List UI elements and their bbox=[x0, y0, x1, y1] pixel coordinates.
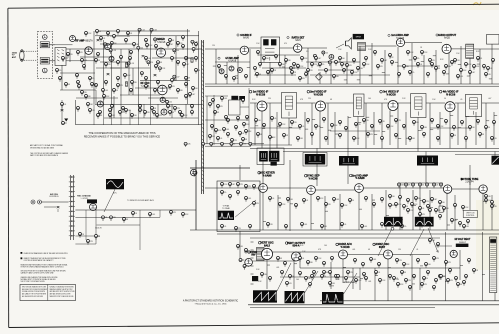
component agc row c17 bbox=[459, 222, 462, 227]
svg-text:330: 330 bbox=[180, 90, 183, 92]
svg-text:120: 120 bbox=[438, 210, 441, 212]
component on bus c2 bbox=[202, 142, 205, 147]
svg-text:.001: .001 bbox=[336, 199, 339, 201]
svg-text:470: 470 bbox=[349, 65, 352, 67]
svg-text:68: 68 bbox=[280, 258, 282, 260]
component bottom row c26 bbox=[413, 275, 416, 280]
component bottom row c30 bbox=[309, 283, 312, 288]
component tuner p3 c11 bbox=[83, 65, 86, 70]
component left-mid c5 bbox=[193, 171, 196, 176]
video IF row wiring bbox=[250, 103, 499, 154]
component tuner c35 bbox=[151, 107, 157, 112]
label RF OSC bbox=[140, 82, 150, 88]
svg-text:VARY POINT AND WITH RESISTANCE: VARY POINT AND WITH RESISTANCE bbox=[30, 154, 59, 157]
svg-text:220: 220 bbox=[70, 54, 73, 56]
component tuner extra c21 bbox=[97, 114, 103, 119]
svg-text:68: 68 bbox=[286, 135, 288, 137]
component tuner p3 c15 bbox=[129, 57, 132, 62]
component yoke plug b bbox=[243, 265, 249, 270]
svg-text:.05: .05 bbox=[460, 99, 462, 101]
svg-text:RATIO DET: RATIO DET bbox=[292, 36, 305, 39]
svg-text:68: 68 bbox=[438, 68, 440, 70]
svg-text:220: 220 bbox=[308, 98, 311, 100]
svg-text:.047: .047 bbox=[186, 64, 189, 66]
component agc row c19 bbox=[221, 191, 227, 196]
phono jack 1 bbox=[31, 200, 35, 204]
component sound row c26 bbox=[285, 59, 291, 64]
small print notes a bbox=[30, 144, 63, 149]
component video IF c41 bbox=[395, 134, 398, 139]
svg-text:120: 120 bbox=[488, 74, 491, 76]
svg-text:.047: .047 bbox=[488, 98, 491, 100]
component extra p2 c35 bbox=[427, 205, 430, 210]
component tuner c30 bbox=[81, 91, 87, 96]
component video IF c22 bbox=[431, 119, 434, 124]
component extra p2 c28 bbox=[239, 132, 245, 137]
component video IF c26 bbox=[461, 121, 464, 126]
svg-text:5 A 6.3V: 5 A 6.3V bbox=[95, 227, 102, 230]
component agc row c36 bbox=[381, 198, 384, 203]
component agc row c10 bbox=[415, 197, 421, 202]
component extra p2 c21 bbox=[209, 103, 212, 108]
component tuner c32 bbox=[109, 109, 112, 114]
component tuner c18 bbox=[110, 42, 116, 47]
component extra p2 c2 bbox=[263, 57, 269, 62]
component center cluster c11 bbox=[217, 137, 223, 142]
component extra p2 c17 bbox=[451, 61, 454, 66]
component sound row c14 bbox=[429, 59, 435, 64]
component extra p2 c9 bbox=[357, 67, 364, 72]
label label SYNC INV bbox=[248, 250, 257, 257]
component left-mid c8 bbox=[95, 235, 100, 240]
component video IF c37 bbox=[339, 134, 342, 139]
component agc row c51 bbox=[341, 223, 347, 228]
component extra p2 c19 bbox=[473, 65, 481, 70]
component center cluster c5 bbox=[225, 116, 228, 121]
svg-text:68: 68 bbox=[330, 99, 332, 101]
component video IF c21 bbox=[421, 126, 428, 131]
tube V35 vert output bbox=[292, 252, 301, 261]
svg-text:.047: .047 bbox=[176, 77, 179, 79]
component sound row c23 bbox=[245, 75, 248, 80]
component tuner c26 bbox=[124, 74, 132, 79]
component tuner p3 c38 bbox=[179, 111, 182, 116]
svg-text:68: 68 bbox=[482, 134, 484, 136]
paper tint top right bbox=[460, 0, 499, 10]
component tuner extra c28 bbox=[181, 114, 189, 119]
component agc row c24 bbox=[269, 197, 275, 202]
svg-text:.05: .05 bbox=[490, 68, 492, 70]
svg-text:.05: .05 bbox=[274, 118, 276, 120]
ground symbol below shield bbox=[64, 119, 68, 122]
component center cluster c2 bbox=[221, 97, 228, 102]
component tuner extra c22 bbox=[109, 114, 116, 119]
page border bottom bbox=[9, 323, 499, 328]
svg-text:6S4-A: 6S4-A bbox=[292, 245, 299, 248]
component extra p2 c10 bbox=[363, 63, 371, 68]
svg-text:6BQ7A: 6BQ7A bbox=[85, 40, 93, 43]
component video IF c31 bbox=[257, 133, 262, 138]
component center cluster c1 bbox=[212, 99, 215, 104]
svg-text:330: 330 bbox=[418, 198, 421, 200]
component agc row c8 bbox=[399, 196, 402, 201]
component video IF c38 bbox=[353, 137, 361, 142]
capacitor tuner C1 bbox=[97, 40, 100, 42]
component tuner extra c19 bbox=[177, 89, 183, 94]
component bottom row c17 bbox=[299, 272, 302, 277]
component tuner p3 c21 bbox=[77, 81, 80, 86]
component bottom row c42 bbox=[468, 259, 471, 264]
tuner below-shield components bbox=[61, 100, 63, 125]
component tuner c11 bbox=[140, 72, 143, 77]
svg-text:470: 470 bbox=[80, 52, 83, 54]
component tuner p3 c6 bbox=[155, 45, 158, 50]
component bottom row c16 bbox=[433, 257, 440, 262]
component video IF c19 bbox=[403, 125, 406, 130]
svg-text:120: 120 bbox=[113, 217, 116, 219]
component tuner extra c4 bbox=[117, 30, 120, 35]
component agc row c16 bbox=[451, 219, 457, 224]
component agc row c40 bbox=[429, 209, 432, 214]
svg-text:100: 100 bbox=[134, 115, 137, 117]
waveform W6 leader bbox=[378, 229, 392, 257]
rec change label box bbox=[87, 199, 97, 203]
component tuner p3 c30 bbox=[77, 107, 80, 112]
component agc row c27 bbox=[295, 204, 298, 209]
wire y168 left of sync box bbox=[190, 167, 250, 169]
svg-text:120: 120 bbox=[270, 224, 273, 226]
component agc row c41 bbox=[439, 215, 442, 220]
label HV RECT block bbox=[455, 239, 471, 247]
component agc row c6 bbox=[433, 183, 439, 188]
capacitor tuner C2 bbox=[142, 56, 145, 58]
tube V3 bbox=[85, 47, 93, 55]
component extra p2 c6 bbox=[315, 57, 322, 62]
component extra p2 c16 bbox=[445, 65, 452, 70]
tube V30 vert osc bbox=[261, 248, 272, 259]
component center cluster c9 bbox=[235, 126, 238, 131]
component on bus c4 bbox=[221, 142, 224, 147]
tube V29 rec change bbox=[90, 204, 97, 211]
resistor tuner R1 bbox=[125, 63, 127, 68]
svg-text:.001: .001 bbox=[460, 76, 463, 78]
component bottom row c44 bbox=[437, 243, 440, 248]
component bottom row c22 bbox=[363, 273, 366, 278]
svg-text:100: 100 bbox=[472, 127, 475, 129]
svg-text:68: 68 bbox=[160, 62, 162, 64]
antenna lead wire upper bbox=[24, 50, 37, 52]
component extra p2 c23 bbox=[227, 119, 230, 124]
component video IF c27 bbox=[469, 126, 475, 131]
component tuner extra c23 bbox=[119, 111, 126, 116]
svg-text:CONTROL: CONTROL bbox=[466, 215, 475, 217]
svg-text:120: 120 bbox=[108, 64, 111, 66]
component tuner c29 bbox=[130, 51, 133, 56]
component tuner extra c11 bbox=[78, 85, 81, 90]
component tuner p3 c22 bbox=[91, 83, 97, 88]
svg-text:HI VOLT RECT: HI VOLT RECT bbox=[455, 239, 471, 241]
component tuner p3 c8 bbox=[182, 45, 185, 50]
svg-text:.001: .001 bbox=[373, 259, 376, 261]
component tuner c16 bbox=[109, 49, 117, 54]
capacitor below shield bbox=[61, 110, 64, 112]
tube V31 horiz afc bbox=[339, 250, 348, 259]
resistor tuner R2 bbox=[125, 82, 127, 87]
tube V13 4.5mc amp c bbox=[237, 68, 242, 73]
svg-text:THE COOPERATION OF THE MANUFAC: THE COOPERATION OF THE MANUFACTURER OF T… bbox=[88, 131, 155, 135]
tuner shield dashed box bbox=[38, 32, 53, 79]
component extra p2 c20 bbox=[487, 67, 493, 72]
component bottom row c9 bbox=[362, 263, 365, 268]
svg-text:INV: INV bbox=[251, 254, 256, 257]
component extra p2 c30 bbox=[389, 195, 395, 200]
svg-text:56: 56 bbox=[426, 278, 428, 280]
component sound row c28 bbox=[307, 69, 313, 74]
tube V17 audio amp bbox=[396, 38, 404, 46]
component agc row c29 bbox=[317, 197, 325, 202]
waveform W4 leader bbox=[305, 271, 319, 293]
component sound row c11 bbox=[407, 51, 415, 56]
tuner channel strip box upper bbox=[40, 42, 49, 48]
svg-text:.001: .001 bbox=[84, 60, 87, 62]
component on bus c1 bbox=[184, 142, 191, 147]
waveform W3 leader bbox=[277, 263, 291, 291]
component sound mid c3 bbox=[279, 63, 285, 68]
component tuner c12 bbox=[158, 67, 166, 72]
component extra p2 c39 bbox=[491, 201, 494, 206]
component tuner c3 bbox=[154, 38, 161, 43]
B+ bus line upper bbox=[205, 83, 499, 85]
component video IF c3 bbox=[271, 117, 277, 122]
component agc row c52 bbox=[361, 225, 368, 230]
component extra p2 c4 bbox=[293, 63, 300, 68]
component extra p2 c15 bbox=[431, 63, 434, 68]
left-mid wiring bbox=[42, 160, 197, 250]
component tuner c31 bbox=[89, 109, 95, 114]
component agc row c21 bbox=[237, 191, 240, 196]
svg-text:RECEIVER MAKES IT POSSIBLE TO: RECEIVER MAKES IT POSSIBLE TO BRING YOU … bbox=[84, 135, 161, 139]
component tuner extra c25 bbox=[144, 111, 150, 116]
component video IF c39 bbox=[367, 133, 374, 138]
component sound row c16 bbox=[454, 59, 460, 64]
svg-text:.05: .05 bbox=[94, 84, 96, 86]
component sound row c6 bbox=[353, 59, 356, 64]
component tuner c4 bbox=[176, 42, 182, 47]
IF transformer can T2 (photo) bbox=[305, 154, 325, 165]
component tuner p3 c14 bbox=[117, 61, 120, 66]
component video IF c42 bbox=[409, 137, 416, 142]
component extra p2 c14 bbox=[417, 63, 423, 68]
svg-text:68: 68 bbox=[368, 249, 370, 251]
IF can group outline B bbox=[303, 153, 327, 167]
component tuner p3 c25 bbox=[131, 81, 137, 86]
component bottom row c28 bbox=[439, 275, 445, 280]
tube V33 small bottom left bbox=[245, 259, 253, 267]
component tuner p3 c10 bbox=[77, 51, 83, 56]
small network box right of W7 bbox=[439, 206, 443, 212]
component center cluster c8 bbox=[223, 128, 230, 133]
component tuner c22 bbox=[76, 74, 79, 79]
svg-text:VTVM FOR OHMS CHASSIS READINGS: VTVM FOR OHMS CHASSIS READINGS INPUT CON… bbox=[21, 265, 65, 268]
svg-text:100: 100 bbox=[246, 266, 249, 268]
component video IF c32 bbox=[269, 136, 277, 141]
component bottom row c4 bbox=[307, 261, 313, 266]
component video IF c29 bbox=[485, 126, 490, 131]
svg-text:.01: .01 bbox=[302, 258, 304, 260]
tube V4 bbox=[105, 44, 111, 50]
component C below shield bbox=[61, 103, 67, 108]
component extra p2 c52 bbox=[329, 271, 332, 276]
component bottom row c19 bbox=[323, 271, 328, 276]
component agc row c7 bbox=[440, 183, 443, 188]
component tuner c34 bbox=[139, 109, 145, 114]
component agc row c14 bbox=[454, 204, 457, 209]
output transformer T6 bbox=[466, 44, 474, 58]
component agc row c20 bbox=[229, 195, 232, 200]
sound row extra labels bbox=[212, 43, 480, 61]
component agc row c43 bbox=[491, 205, 497, 210]
component video IF c1 bbox=[255, 119, 261, 124]
component extra p2 c63 bbox=[455, 277, 458, 282]
tube V23 small bbox=[191, 169, 197, 175]
component tuner extra c17 bbox=[154, 89, 159, 94]
svg-text:220: 220 bbox=[169, 102, 172, 104]
waveform photo W7 horiz sine bbox=[415, 217, 434, 227]
component sound row c21 bbox=[225, 75, 228, 80]
component video IF c48 bbox=[491, 137, 497, 142]
svg-text:56: 56 bbox=[454, 135, 456, 137]
component bottom row c14 bbox=[417, 259, 420, 264]
component tuner p3 c24 bbox=[117, 77, 120, 82]
IF can T1 connector tail bbox=[271, 162, 277, 166]
svg-text:½ 6CG8: ½ 6CG8 bbox=[446, 92, 456, 96]
svg-text:56: 56 bbox=[324, 276, 326, 278]
component extra p2 c54 bbox=[345, 277, 348, 282]
component sound row c31 bbox=[319, 63, 325, 68]
component video IF c17 bbox=[387, 125, 395, 130]
component tuner p3 c31 bbox=[87, 103, 93, 108]
component tuner extra c2 bbox=[96, 30, 101, 35]
component extra p2 c43 bbox=[245, 185, 252, 190]
svg-text:.001: .001 bbox=[276, 267, 279, 269]
waveform photo W2 sync pulse bbox=[218, 211, 234, 220]
svg-text:330: 330 bbox=[446, 208, 449, 210]
component tuner c42 bbox=[67, 53, 73, 58]
component tuner extra c13 bbox=[103, 95, 111, 100]
component tuner extra c1 bbox=[85, 32, 93, 37]
label RATIO DET 6AL5 bbox=[287, 36, 305, 42]
test point diamond bbox=[316, 73, 323, 80]
svg-text:.047: .047 bbox=[170, 44, 173, 46]
component video IF c23 bbox=[437, 125, 445, 130]
component tuner extra c12 bbox=[85, 95, 91, 100]
IF can group outline A bbox=[257, 148, 284, 165]
component tuner c1 bbox=[138, 28, 146, 33]
component video IF c5 bbox=[291, 121, 297, 126]
speaker bbox=[346, 38, 352, 49]
svg-text:100: 100 bbox=[368, 98, 371, 100]
capacitor tuner C3 bbox=[154, 75, 157, 77]
svg-text:TO REMOTE SOUND AMP JACK: TO REMOTE SOUND AMP JACK bbox=[127, 199, 155, 202]
IF interstage transformer A bbox=[282, 93, 297, 119]
svg-text:220: 220 bbox=[294, 122, 297, 124]
svg-text:220: 220 bbox=[84, 92, 87, 94]
component sound row c36 bbox=[443, 71, 446, 76]
component agc row c44 bbox=[221, 225, 227, 230]
waveform photo W3 vert sawtooth bbox=[253, 290, 277, 302]
antenna lead wire lower bbox=[24, 59, 37, 61]
component extra p2 c33 bbox=[411, 203, 419, 208]
component tuner p3 c26 bbox=[145, 77, 148, 82]
component tuner c20 bbox=[95, 84, 98, 89]
tuner extra wiring bbox=[60, 31, 198, 125]
waveform W1 leader line bbox=[104, 189, 115, 212]
svg-text:68: 68 bbox=[460, 284, 462, 286]
svg-text:68: 68 bbox=[172, 112, 174, 114]
component video IF c20 bbox=[413, 121, 419, 126]
component video IF c35 bbox=[311, 133, 314, 138]
svg-text:SPKR: SPKR bbox=[356, 37, 362, 39]
svg-text:.047: .047 bbox=[308, 278, 311, 280]
component video IF c7 bbox=[307, 119, 310, 124]
component video IF c11 bbox=[339, 121, 342, 126]
svg-text:120: 120 bbox=[358, 124, 361, 126]
service note lines 5 bbox=[21, 276, 58, 283]
component tuner c17 bbox=[104, 43, 110, 48]
label RF AMP 6BQ7A bbox=[71, 39, 93, 42]
component bottom row c29 bbox=[286, 282, 292, 287]
svg-text:120: 120 bbox=[406, 66, 409, 68]
svg-text:.001: .001 bbox=[248, 198, 251, 200]
component D below shield bbox=[62, 122, 67, 125]
svg-text:120: 120 bbox=[457, 60, 460, 62]
svg-text:1B3GT: 1B3GT bbox=[459, 242, 467, 244]
tube V2 RF amplifier bbox=[70, 36, 76, 42]
tube V8 bbox=[97, 101, 103, 107]
component sound row c18 bbox=[477, 57, 483, 62]
tube V1B bbox=[43, 68, 48, 73]
component tuner c2 bbox=[150, 28, 158, 33]
yoke connector black tab bbox=[252, 276, 258, 281]
tube V15 ratio detector bbox=[294, 44, 302, 52]
component tuner p3 c34 bbox=[125, 109, 132, 114]
wire x207 vertical bbox=[206, 96, 208, 144]
component tuner extra c18 bbox=[169, 85, 175, 90]
component sound row c35 bbox=[427, 73, 430, 78]
svg-text:.01: .01 bbox=[416, 249, 418, 251]
yellow scribble artifact top right bbox=[473, 2, 481, 5]
label label HORIZ OSC bbox=[373, 242, 389, 249]
component agc row c49 bbox=[301, 223, 308, 228]
svg-text:120: 120 bbox=[382, 121, 385, 123]
component tuner extra c6 bbox=[146, 44, 154, 49]
tube V22 4th video if bbox=[445, 102, 455, 112]
component tuner extra c16 bbox=[145, 85, 148, 90]
component video IF c44 bbox=[437, 137, 440, 142]
component extra p2 c36 bbox=[435, 209, 441, 214]
component tuner p3 c18 bbox=[171, 57, 174, 62]
waveform photo W1 60cps sine bbox=[106, 179, 124, 189]
svg-text:.047: .047 bbox=[136, 44, 139, 46]
component agc row c5 bbox=[426, 183, 429, 188]
component bottom row c11 bbox=[378, 263, 381, 268]
component sound row c40 bbox=[492, 59, 495, 64]
waveform W6 leader circle bbox=[391, 227, 394, 230]
component sound row c30 bbox=[271, 69, 277, 74]
component tuner p3 c32 bbox=[99, 111, 102, 116]
component bottom row c31 bbox=[329, 282, 336, 287]
component tuner p3 c28 bbox=[171, 79, 177, 84]
